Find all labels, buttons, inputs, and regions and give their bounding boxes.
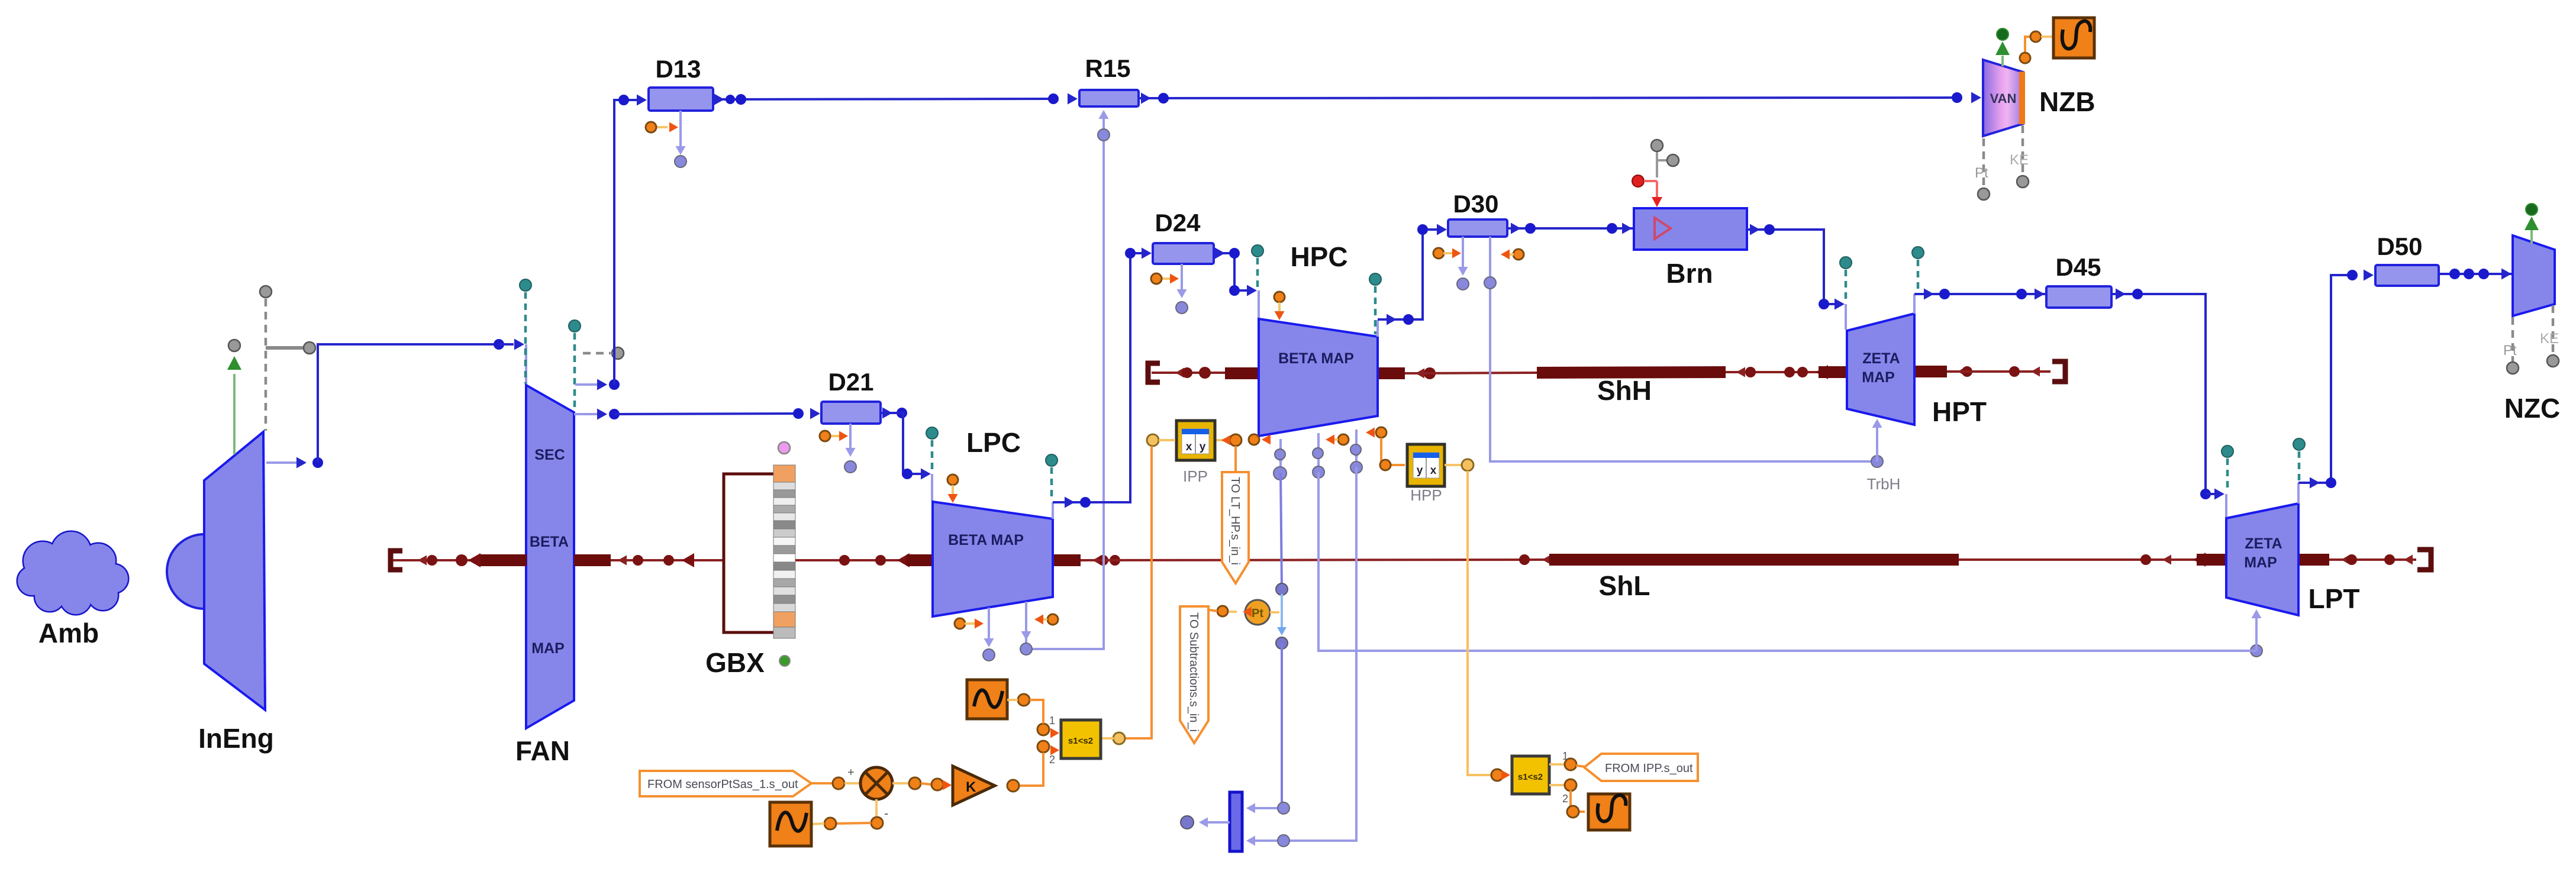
wire Brn to HPT <box>1747 230 1836 304</box>
wire IPP chain <box>1230 434 1242 446</box>
ambient source Amb <box>18 532 128 614</box>
D24 bleed port <box>1181 264 1183 296</box>
wire D45 to LPT <box>2111 294 2206 493</box>
turbine HPT <box>1847 314 1914 425</box>
nozzle NZB <box>1983 60 2023 136</box>
signal source box 1 <box>967 680 1007 719</box>
svg-text:Brn: Brn <box>1666 258 1713 289</box>
wire D13 to R15 <box>713 99 1053 99</box>
gray dashed connector on InEng <box>265 299 267 431</box>
teal station marker FAN bypass <box>573 333 576 411</box>
svg-text:TO LT_HP.s_in_i: TO LT_HP.s_in_i <box>1229 477 1242 565</box>
shaft ShH right end bracket <box>2052 361 2065 382</box>
teal station marker HPT outlet <box>1917 260 1920 291</box>
svg-text:D13: D13 <box>655 55 701 83</box>
svg-text:TrbH: TrbH <box>1867 475 1901 493</box>
svg-text:TO Subtractions.s_in_i: TO Subtractions.s_in_i <box>1187 612 1200 732</box>
reducer R15 <box>1079 90 1139 106</box>
svg-text:BETA MAP: BETA MAP <box>948 532 1024 548</box>
signal source box 3 <box>1588 794 1630 830</box>
NZC Pt port <box>2511 317 2514 362</box>
power block HPP <box>1407 444 1445 486</box>
svg-text:InEng: InEng <box>198 723 274 754</box>
fuel connector above Brn <box>1651 140 1663 151</box>
svg-text:-: - <box>884 806 888 821</box>
LPC bleed port 2 to R15 <box>1025 602 1027 646</box>
teal station marker HPC inlet <box>1256 258 1259 289</box>
wire HPP down to comparator 2 <box>1445 464 1462 466</box>
svg-text:HPT: HPT <box>1932 396 1987 427</box>
svg-text:s1<s2: s1<s2 <box>1068 736 1093 746</box>
intake InEng <box>167 534 204 609</box>
wire D50 to NZC <box>2439 273 2513 275</box>
comparator 2 <box>1512 756 1549 794</box>
svg-text:y: y <box>1417 464 1423 477</box>
wire comparator1 up to IPP <box>1147 434 1159 446</box>
svg-text:K: K <box>966 779 976 795</box>
svg-text:ShL: ShL <box>1599 570 1650 601</box>
wire FAN core to D21 <box>614 414 798 414</box>
flag TO LT_HP.s_in_i <box>1222 472 1249 583</box>
HPC top control port <box>1274 292 1285 302</box>
D30 bleed port 2 to HPT cooling TrbH <box>1490 237 1877 461</box>
signal source box at NZB <box>2053 18 2094 58</box>
NZB KE port <box>2022 125 2024 175</box>
magenta control port GBX <box>778 442 790 454</box>
svg-text:IPP: IPP <box>1183 467 1208 485</box>
HPC power port left to IPP <box>1249 434 1259 445</box>
svg-text:HPC: HPC <box>1290 241 1347 272</box>
wire InEng outlet to FAN inlet <box>266 461 299 464</box>
svg-text:FROM sensorPtSas_1.s_out: FROM sensorPtSas_1.s_out <box>647 778 798 791</box>
svg-text:KE: KE <box>2010 152 2029 168</box>
gearbox GBX body <box>724 474 777 632</box>
duct D24 <box>1153 243 1214 264</box>
svg-text:D30: D30 <box>1453 190 1498 218</box>
compressor LPC <box>933 502 1053 616</box>
wire FAN bypass outlet <box>575 383 599 386</box>
teal station marker LPC inlet <box>931 440 934 472</box>
svg-text:LPT: LPT <box>2309 583 2360 614</box>
teal station marker LPC outlet <box>1050 467 1053 501</box>
svg-text:VAN: VAN <box>1990 91 2017 106</box>
orange link NZB to signal <box>2025 37 2032 57</box>
svg-text:x: x <box>1430 464 1437 477</box>
R15 bottom feed from LPC bleed <box>1026 112 1104 649</box>
nozzle NZC <box>2513 235 2555 316</box>
signal source box 2 <box>770 802 811 846</box>
shaft ShH segment HPC to HPT <box>1378 367 1405 379</box>
shaft ShL segment LPC to LPT <box>1053 554 1081 566</box>
svg-text:Pt: Pt <box>1252 607 1263 620</box>
wire LPC outlet up to D24 <box>1052 502 1054 519</box>
svg-text:LPC: LPC <box>966 427 1021 458</box>
svg-text:D21: D21 <box>828 368 873 396</box>
turbine LPT <box>2226 503 2298 615</box>
teal station marker HPT inlet <box>1845 270 1848 302</box>
multiplier minus input from signal source 2 <box>875 799 878 818</box>
flag TO Subtractions.s_in_i <box>1180 606 1208 743</box>
svg-text:NZC: NZC <box>2504 393 2561 424</box>
svg-text:D45: D45 <box>2055 253 2101 281</box>
HPC bleed port 1 chain to mixer top <box>1279 439 1282 470</box>
svg-text:MAP: MAP <box>1862 369 1895 386</box>
svg-text:HPP: HPP <box>1410 486 1442 504</box>
gearbox GBX gear rack <box>773 465 795 638</box>
svg-text:ZETA: ZETA <box>1862 350 1900 367</box>
flag FROM IPP.s_out <box>1584 754 1698 781</box>
svg-text:KE: KE <box>2540 331 2559 347</box>
shaft ShL right end bracket <box>2417 550 2431 570</box>
svg-text:MAP: MAP <box>531 640 565 657</box>
svg-text:SEC: SEC <box>534 447 565 463</box>
shaft ShL segment FAN to GBX <box>574 554 611 566</box>
green connector on NZB <box>2001 56 2004 66</box>
svg-text:s1<s2: s1<s2 <box>1518 772 1543 782</box>
fan FAN <box>526 385 574 728</box>
duct D45 <box>2046 286 2111 308</box>
green dot near GBX <box>779 656 790 666</box>
iteration circle Pt <box>1245 600 1270 625</box>
svg-text:x: x <box>1186 441 1192 453</box>
mixer outlet <box>1202 821 1230 824</box>
multiplier output to gain K <box>892 782 909 784</box>
wire flag to multiplier <box>811 782 833 784</box>
NZC KE port <box>2552 305 2555 355</box>
duct D21 <box>821 402 881 424</box>
teal station marker HPC outlet <box>1374 286 1377 334</box>
flag FROM sensorPtSas_1.s_out <box>640 771 811 796</box>
svg-text:FAN: FAN <box>515 735 570 766</box>
gain K input wire <box>1019 753 1043 786</box>
svg-text:MAP: MAP <box>2244 554 2277 571</box>
teal station marker LPT outlet <box>2298 451 2301 480</box>
svg-text:Amb: Amb <box>38 618 99 648</box>
D30 bleed port 1 <box>1462 237 1464 273</box>
duct D13 <box>649 88 713 111</box>
HPC bleed port 2 chain to LPT cooling <box>1317 433 1320 470</box>
svg-text:y: y <box>1200 441 1206 453</box>
NZB Pt port <box>1982 138 1985 188</box>
D24 control port <box>1161 277 1171 280</box>
wire D21 to LPC <box>882 408 892 419</box>
wire D30 to Brn <box>1507 227 1634 230</box>
gray stub bar <box>266 346 304 350</box>
svg-text:FROM IPP.s_out: FROM IPP.s_out <box>1605 762 1693 775</box>
LPC top control port <box>947 474 958 485</box>
D21 control port <box>830 435 840 437</box>
wire D24 to HPC <box>1214 253 1247 290</box>
svg-text:ZETA: ZETA <box>2245 535 2282 552</box>
duct D30 <box>1448 219 1507 237</box>
svg-text:Pt: Pt <box>2503 343 2517 359</box>
svg-text:Pt: Pt <box>1975 165 1988 181</box>
compressor HPC <box>1259 319 1378 436</box>
svg-text:1: 1 <box>1562 750 1568 762</box>
D13 bleed port <box>679 111 682 149</box>
svg-text:NZB: NZB <box>2039 86 2095 117</box>
svg-text:GBX: GBX <box>705 647 765 678</box>
green connector on NZC <box>2530 230 2533 244</box>
HPC control dot near bleed2 <box>1338 434 1349 445</box>
LPC bleed port 1 <box>988 608 990 645</box>
gray dashed stub near FAN <box>583 352 611 355</box>
D21 bleed port <box>849 424 852 454</box>
svg-text:2: 2 <box>1049 754 1055 766</box>
shaft ShL segment GBX to LPC <box>795 559 907 561</box>
shaft ShH segment right of HPT <box>1914 366 1947 377</box>
comparator 1 <box>1061 720 1101 758</box>
green connector on InEng <box>233 374 236 454</box>
wire stub into FAN corner <box>525 344 527 385</box>
HPC bleed port 3 chain to mixer bottom <box>1355 430 1358 467</box>
svg-text:BETA: BETA <box>530 534 569 550</box>
power block IPP <box>1176 421 1215 460</box>
HPC power port to HPP <box>1376 427 1387 438</box>
svg-text:R15: R15 <box>1085 54 1130 82</box>
wire LPT outlet up to D50 <box>2297 483 2300 503</box>
wire FAN core outlet <box>574 413 599 415</box>
teal station marker LPT inlet <box>2226 459 2229 492</box>
gain K triangle <box>953 766 995 805</box>
svg-text:BETA MAP: BETA MAP <box>1278 350 1354 367</box>
multiplier circle <box>860 767 892 799</box>
burner Brn <box>1634 208 1747 250</box>
shaft ShL segment left of FAN <box>393 559 491 561</box>
svg-text:+: + <box>847 766 855 779</box>
svg-text:D24: D24 <box>1155 209 1201 237</box>
wire comparator2 to signal source <box>1571 790 1585 812</box>
svg-text:1: 1 <box>1049 715 1055 727</box>
shaft ShL segment right of LPT <box>2298 554 2329 566</box>
wire FAN bypass up to D13 <box>614 100 644 385</box>
LPT cooling inlet port <box>2251 645 2262 657</box>
shaft ShH segment left of HPC <box>1152 372 1232 374</box>
shaft ShH left end bracket <box>1148 363 1160 382</box>
svg-text:D50: D50 <box>2377 233 2422 260</box>
D13 control port <box>656 126 668 128</box>
svg-text:2: 2 <box>1562 793 1568 805</box>
svg-text:ShH: ShH <box>1597 375 1652 406</box>
wire HPT outlet to D45 <box>1913 294 1916 314</box>
wire HPC outlet up to D30 <box>1376 320 1379 337</box>
wire R15 to NZB <box>1139 98 1957 98</box>
teal station marker FAN inlet <box>524 292 527 383</box>
shaft ShL left end bracket <box>391 551 402 570</box>
duct D50 <box>2375 265 2439 286</box>
mixer bar <box>1230 792 1242 851</box>
